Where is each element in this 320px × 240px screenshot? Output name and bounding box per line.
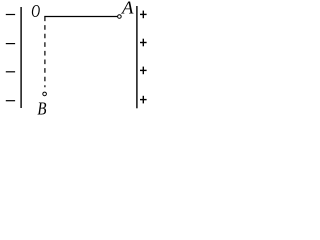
svg-text:O: O: [31, 2, 40, 22]
svg-text:B: B: [37, 98, 46, 117]
svg-text:A: A: [121, 0, 134, 18]
